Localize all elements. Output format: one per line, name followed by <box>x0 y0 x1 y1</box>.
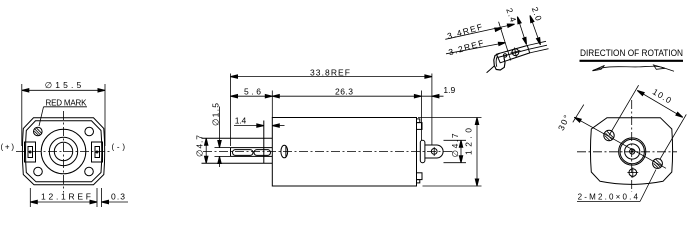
vent hole <box>629 169 637 177</box>
svg-text:10.0: 10.0 <box>651 87 674 106</box>
dim 10.0 <box>609 85 686 159</box>
svg-text:(+): (+) <box>1 143 15 152</box>
svg-text:1.4: 1.4 <box>235 116 247 126</box>
dim Ø4.7 right <box>444 140 467 162</box>
dim Ø15.5 <box>22 84 105 146</box>
rear outline <box>590 118 672 185</box>
svg-text:0.3: 0.3 <box>111 191 125 201</box>
terminal tab top <box>417 123 423 130</box>
svg-text:30°: 30° <box>556 113 572 132</box>
svg-text:∅4.7: ∅4.7 <box>195 135 205 157</box>
terminal right <box>92 142 103 162</box>
rear center circles <box>619 138 646 165</box>
centerline vertical <box>63 111 65 193</box>
ext line left <box>499 22 511 61</box>
dim 3.4REF <box>445 24 514 39</box>
svg-text:12.1REF: 12.1REF <box>41 192 91 202</box>
svg-text:2.4: 2.4 <box>504 7 518 24</box>
dim 5.6 / 26.3 / 1.9 <box>231 91 444 141</box>
dim Ø4.7 left <box>205 138 207 163</box>
ext lines right <box>527 41 548 53</box>
dim 33.8REF <box>231 74 432 147</box>
dim 2.4 <box>517 17 526 45</box>
shaft flat 1 <box>233 150 254 156</box>
svg-text:∅15.5: ∅15.5 <box>45 80 82 90</box>
leader 2-M2.0 <box>577 201 640 203</box>
corner hole bottom-right <box>85 167 94 176</box>
terminal flag end <box>494 53 505 70</box>
terminal hole <box>512 49 519 56</box>
shaft <box>231 147 273 149</box>
centerline horizontal <box>16 151 112 153</box>
svg-text:1.9: 1.9 <box>443 85 455 95</box>
motor front outline inner <box>26 121 102 182</box>
rear centerline vertical <box>631 100 633 192</box>
terminal body <box>497 46 530 63</box>
svg-text:2-M2.0×0.4: 2-M2.0×0.4 <box>578 193 639 202</box>
dim 12.1REF / 0.3 <box>30 188 128 207</box>
svg-text:∅4.7: ∅4.7 <box>450 133 460 157</box>
screw hole 2 (hatched) <box>653 159 663 169</box>
centerline <box>203 151 452 153</box>
svg-text:∅1.5: ∅1.5 <box>211 103 221 126</box>
motor front outline outer <box>22 118 104 185</box>
dim 12.0 <box>418 118 482 187</box>
shaft hole circle <box>54 142 72 160</box>
svg-text:26.3: 26.3 <box>335 86 353 96</box>
rear boss <box>425 145 443 158</box>
rear shaft end circle <box>431 149 437 155</box>
direction of rotation underline <box>580 60 684 62</box>
terminal dimple <box>503 54 506 57</box>
svg-text:5.6: 5.6 <box>244 86 261 96</box>
end cap bulge <box>420 140 425 162</box>
motor body <box>272 118 416 187</box>
dim Ø1.5 <box>215 107 231 168</box>
30 deg line <box>574 117 604 134</box>
dim 3.2REF <box>446 43 506 54</box>
svg-text:RED MARK: RED MARK <box>46 98 88 107</box>
svg-text:12.0: 12.0 <box>463 128 473 155</box>
rear centerline horizontal <box>577 151 677 153</box>
front bearing boss <box>202 137 273 139</box>
svg-text:33.8REF: 33.8REF <box>310 68 350 78</box>
svg-text:(-): (-) <box>112 143 126 152</box>
terminal tab bottom <box>417 173 423 180</box>
corner hole bottom-left <box>34 167 43 176</box>
svg-text:DIRECTION OF ROTATION: DIRECTION OF ROTATION <box>580 48 683 58</box>
internal ellipse <box>281 145 288 158</box>
screw hole 1 (hatched) <box>604 130 614 140</box>
dim 2.0 <box>530 16 540 45</box>
solder dots <box>29 151 32 154</box>
rotation arrow curve <box>593 66 675 71</box>
dim 1.4 <box>234 125 285 127</box>
center boss circle <box>49 137 77 165</box>
shaft flat 2 <box>254 150 271 156</box>
leader red mark <box>44 106 88 108</box>
corner hole top-right <box>85 127 94 136</box>
terminal left <box>25 142 36 162</box>
flange circle <box>41 129 86 174</box>
red mark hole (hatched) <box>34 127 43 136</box>
svg-text:3.2REF: 3.2REF <box>447 38 484 58</box>
